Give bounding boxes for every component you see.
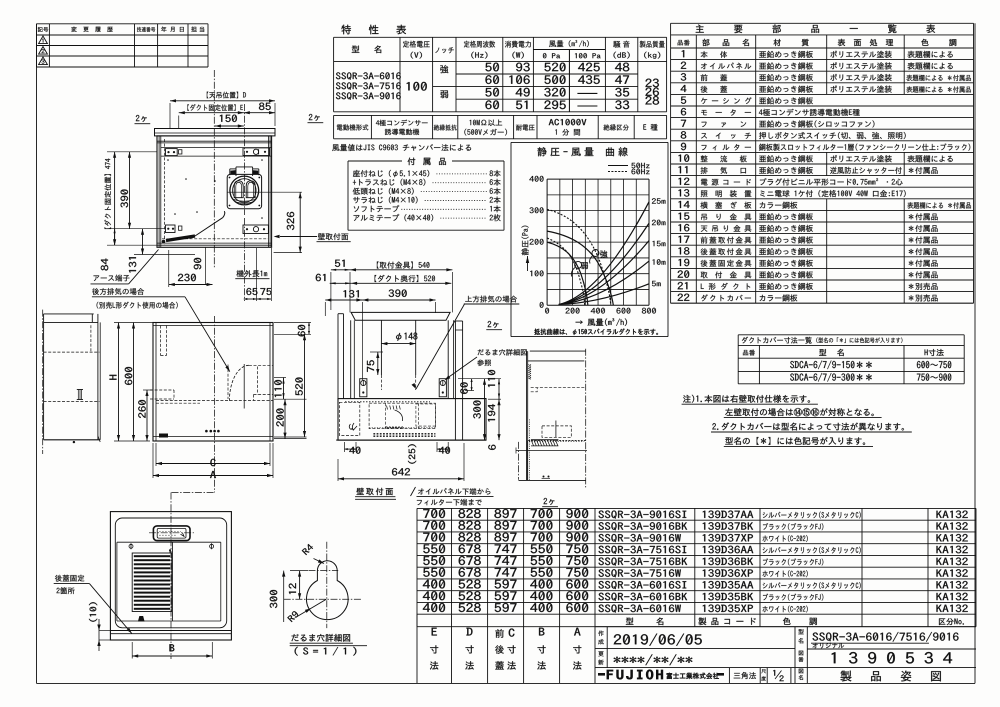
- characteristics table 特性表: [334, 36, 667, 38]
- main parts list table 主要部品一覧表: [671, 22, 974, 24]
- title block: [595, 626, 976, 628]
- model/dimension table: [417, 507, 976, 509]
- static pressure vs airflow chart: [511, 141, 668, 143]
- bottom view drawing: [110, 512, 231, 640]
- revision history table: [37, 23, 209, 25]
- keyhole (daruma) hole detail: [307, 561, 349, 620]
- notes: [682, 403, 818, 405]
- partial right-hand section view: [530, 350, 586, 352]
- accessories box 付属品: [348, 160, 402, 162]
- duct cover size table: [738, 334, 964, 336]
- left side view drawing: [42, 310, 44, 454]
- page frame: [36, 24, 38, 684]
- top view drawing: [155, 129, 276, 136]
- front view drawing: [153, 323, 273, 442]
- plan/side view drawing: [351, 312, 450, 320]
